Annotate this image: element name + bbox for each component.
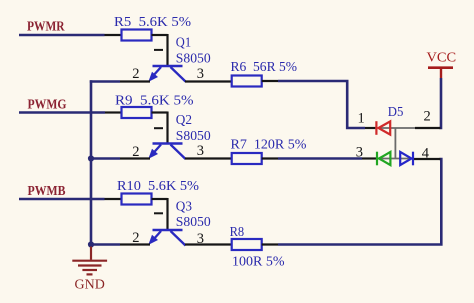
wire Q3 emitter to bus bbox=[120, 243, 150, 245]
resistor R8 bbox=[232, 239, 262, 250]
svg-text:Q1: Q1 bbox=[176, 35, 191, 50]
wire R8 to D5 pin4 loop bbox=[278, 159, 441, 245]
svg-text:3: 3 bbox=[356, 144, 363, 160]
D5 internal link green-blue bbox=[377, 158, 414, 160]
wire PWMG net bbox=[19, 111, 105, 114]
svg-text:R6 56R 5%: R6 56R 5% bbox=[231, 60, 298, 75]
diode D5 blue LED bbox=[400, 152, 413, 166]
wire D5 pin3 stub bbox=[362, 157, 376, 159]
transistor Q3 emitter arrow bbox=[148, 235, 158, 245]
wire Q2 base vertical bbox=[166, 112, 168, 144]
wire Q1 collector to R6 bbox=[185, 80, 231, 82]
svg-text:GND: GND bbox=[75, 278, 105, 293]
wire ground bus vertical bbox=[90, 80, 93, 247]
svg-text:S8050: S8050 bbox=[176, 215, 211, 230]
transistor Q3 bbox=[153, 230, 186, 246]
wire R7 to D5 pin3 bbox=[278, 157, 362, 160]
wire D5 pin1 stub bbox=[365, 127, 375, 129]
svg-text:S8050: S8050 bbox=[176, 129, 211, 144]
wire R9 right pin bbox=[152, 111, 168, 113]
svg-text:PWMR: PWMR bbox=[27, 19, 65, 34]
svg-text:100R 5%: 100R 5% bbox=[232, 255, 285, 270]
svg-text:R5 5.6K 5%: R5 5.6K 5% bbox=[114, 15, 191, 30]
pin 1 marker Q2 bbox=[154, 127, 163, 129]
svg-text:4: 4 bbox=[422, 146, 430, 162]
pin 1 marker Q1 bbox=[154, 49, 163, 51]
svg-text:2: 2 bbox=[132, 66, 139, 82]
svg-text:2: 2 bbox=[424, 109, 431, 125]
wire Q3 collector to R8 bbox=[185, 243, 231, 245]
resistor R10 bbox=[122, 194, 152, 205]
wire R5 left pin bbox=[105, 34, 122, 36]
transistor Q2 emitter arrow bbox=[148, 149, 158, 159]
wire emitter Q3 to ground bus bbox=[91, 243, 120, 246]
svg-text:VCC: VCC bbox=[427, 51, 457, 66]
wire R10 right pin bbox=[152, 198, 168, 200]
wire R10 left pin bbox=[105, 198, 122, 200]
wire R8 right pin bbox=[262, 243, 278, 245]
wire Q1 base vertical bbox=[166, 34, 168, 66]
svg-text:1: 1 bbox=[358, 110, 365, 126]
wire R6 right pin bbox=[262, 80, 278, 82]
svg-text:Q3: Q3 bbox=[176, 200, 192, 215]
svg-text:S8050: S8050 bbox=[176, 51, 211, 66]
wire Q2 emitter to bus bbox=[120, 157, 150, 159]
wire emitter Q2 to ground bus bbox=[91, 157, 120, 160]
resistor R7 bbox=[232, 153, 262, 164]
wire R5 right pin bbox=[152, 34, 168, 36]
resistor R6 bbox=[232, 76, 262, 87]
transistor Q2 bbox=[153, 144, 186, 160]
D5 internal link vertical bbox=[394, 128, 396, 159]
svg-text:3: 3 bbox=[197, 143, 204, 159]
wire Q1 emitter to bus bbox=[120, 80, 150, 82]
power symbol VCC bar bbox=[428, 68, 453, 78]
wire PWMB net bbox=[19, 198, 105, 201]
wire VCC down to D5 pin2 bbox=[440, 78, 442, 128]
svg-text:R10 5.6K 5%: R10 5.6K 5% bbox=[117, 179, 199, 194]
junction dot bus Q2 bbox=[88, 155, 94, 161]
diode D5 red LED bbox=[376, 121, 390, 135]
resistor R5 bbox=[122, 30, 152, 41]
svg-text:3: 3 bbox=[197, 66, 204, 82]
wire R6 to D5 pin1 bbox=[278, 81, 365, 128]
wire D5 pin2 stub bbox=[415, 127, 440, 129]
svg-text:Q2: Q2 bbox=[176, 113, 192, 128]
svg-text:R8: R8 bbox=[230, 225, 245, 240]
diode D5 green LED bbox=[377, 152, 390, 166]
wire R7 right pin bbox=[262, 157, 278, 159]
svg-text:R9 5.6K 5%: R9 5.6K 5% bbox=[115, 94, 194, 109]
resistor R9 bbox=[122, 107, 152, 118]
wire D5 pin4 stub bbox=[414, 158, 440, 160]
wire emitter Q1 to ground bus bbox=[90, 80, 120, 83]
wire R9 left pin bbox=[105, 111, 121, 113]
D5 internal link red anode bbox=[378, 127, 415, 129]
junction dot bus Q3 bbox=[88, 241, 94, 247]
wire Q2 collector to R7 bbox=[185, 157, 231, 159]
wire Q3 base vertical bbox=[166, 198, 168, 230]
ground bbox=[72, 247, 107, 275]
wire PWMR net bbox=[19, 34, 105, 37]
svg-text:D5: D5 bbox=[388, 105, 404, 120]
svg-text:PWMB: PWMB bbox=[28, 183, 66, 198]
transistor Q1 bbox=[153, 66, 186, 82]
svg-text:PWMG: PWMG bbox=[28, 97, 67, 112]
svg-text:R7 120R 5%: R7 120R 5% bbox=[231, 138, 307, 153]
pin 1 marker Q3 bbox=[154, 212, 163, 214]
transistor Q1 emitter arrow bbox=[148, 72, 158, 82]
